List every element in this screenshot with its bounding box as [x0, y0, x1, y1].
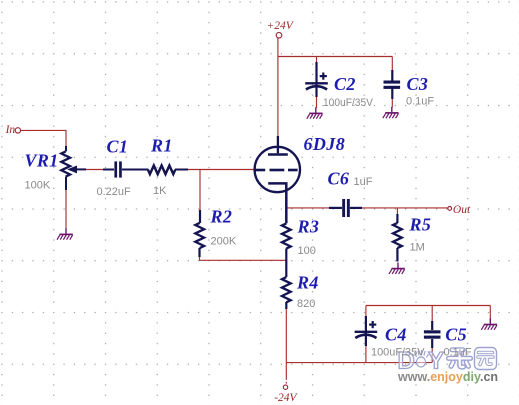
svg-text:+24V: +24V: [267, 20, 295, 32]
svg-text:1K: 1K: [153, 185, 167, 197]
svg-text:0.1uF: 0.1uF: [444, 346, 472, 358]
svg-text:VR1: VR1: [25, 151, 59, 171]
svg-text:Out: Out: [453, 204, 471, 216]
svg-text:C4: C4: [385, 324, 407, 344]
svg-text:C2: C2: [334, 74, 356, 94]
svg-text:R2: R2: [210, 206, 233, 226]
svg-text:R3: R3: [297, 217, 320, 237]
svg-text:100K: 100K: [25, 180, 51, 192]
svg-text:C3: C3: [407, 74, 429, 94]
svg-text:-24V: -24V: [274, 392, 298, 404]
svg-text:R1: R1: [150, 135, 173, 155]
svg-text:In: In: [5, 124, 16, 136]
svg-text:www.enjoydiy.cn: www.enjoydiy.cn: [397, 370, 498, 384]
svg-text:C1: C1: [107, 136, 129, 156]
svg-text:820: 820: [297, 298, 315, 310]
svg-text:R5: R5: [409, 215, 432, 235]
svg-text:100: 100: [298, 245, 316, 257]
svg-text:1M: 1M: [410, 241, 425, 253]
svg-text:100uF/35V: 100uF/35V: [371, 347, 425, 359]
svg-text:0.22uF: 0.22uF: [97, 186, 132, 198]
svg-text:1uF: 1uF: [354, 176, 373, 188]
svg-text:6DJ8: 6DJ8: [304, 134, 346, 154]
svg-text:C5: C5: [445, 324, 467, 344]
svg-text:100uF/35V: 100uF/35V: [323, 97, 374, 109]
svg-text:R4: R4: [296, 273, 319, 293]
svg-text:0.1uF: 0.1uF: [406, 96, 434, 108]
svg-text:C6: C6: [328, 169, 350, 189]
svg-text:200K: 200K: [211, 236, 237, 248]
